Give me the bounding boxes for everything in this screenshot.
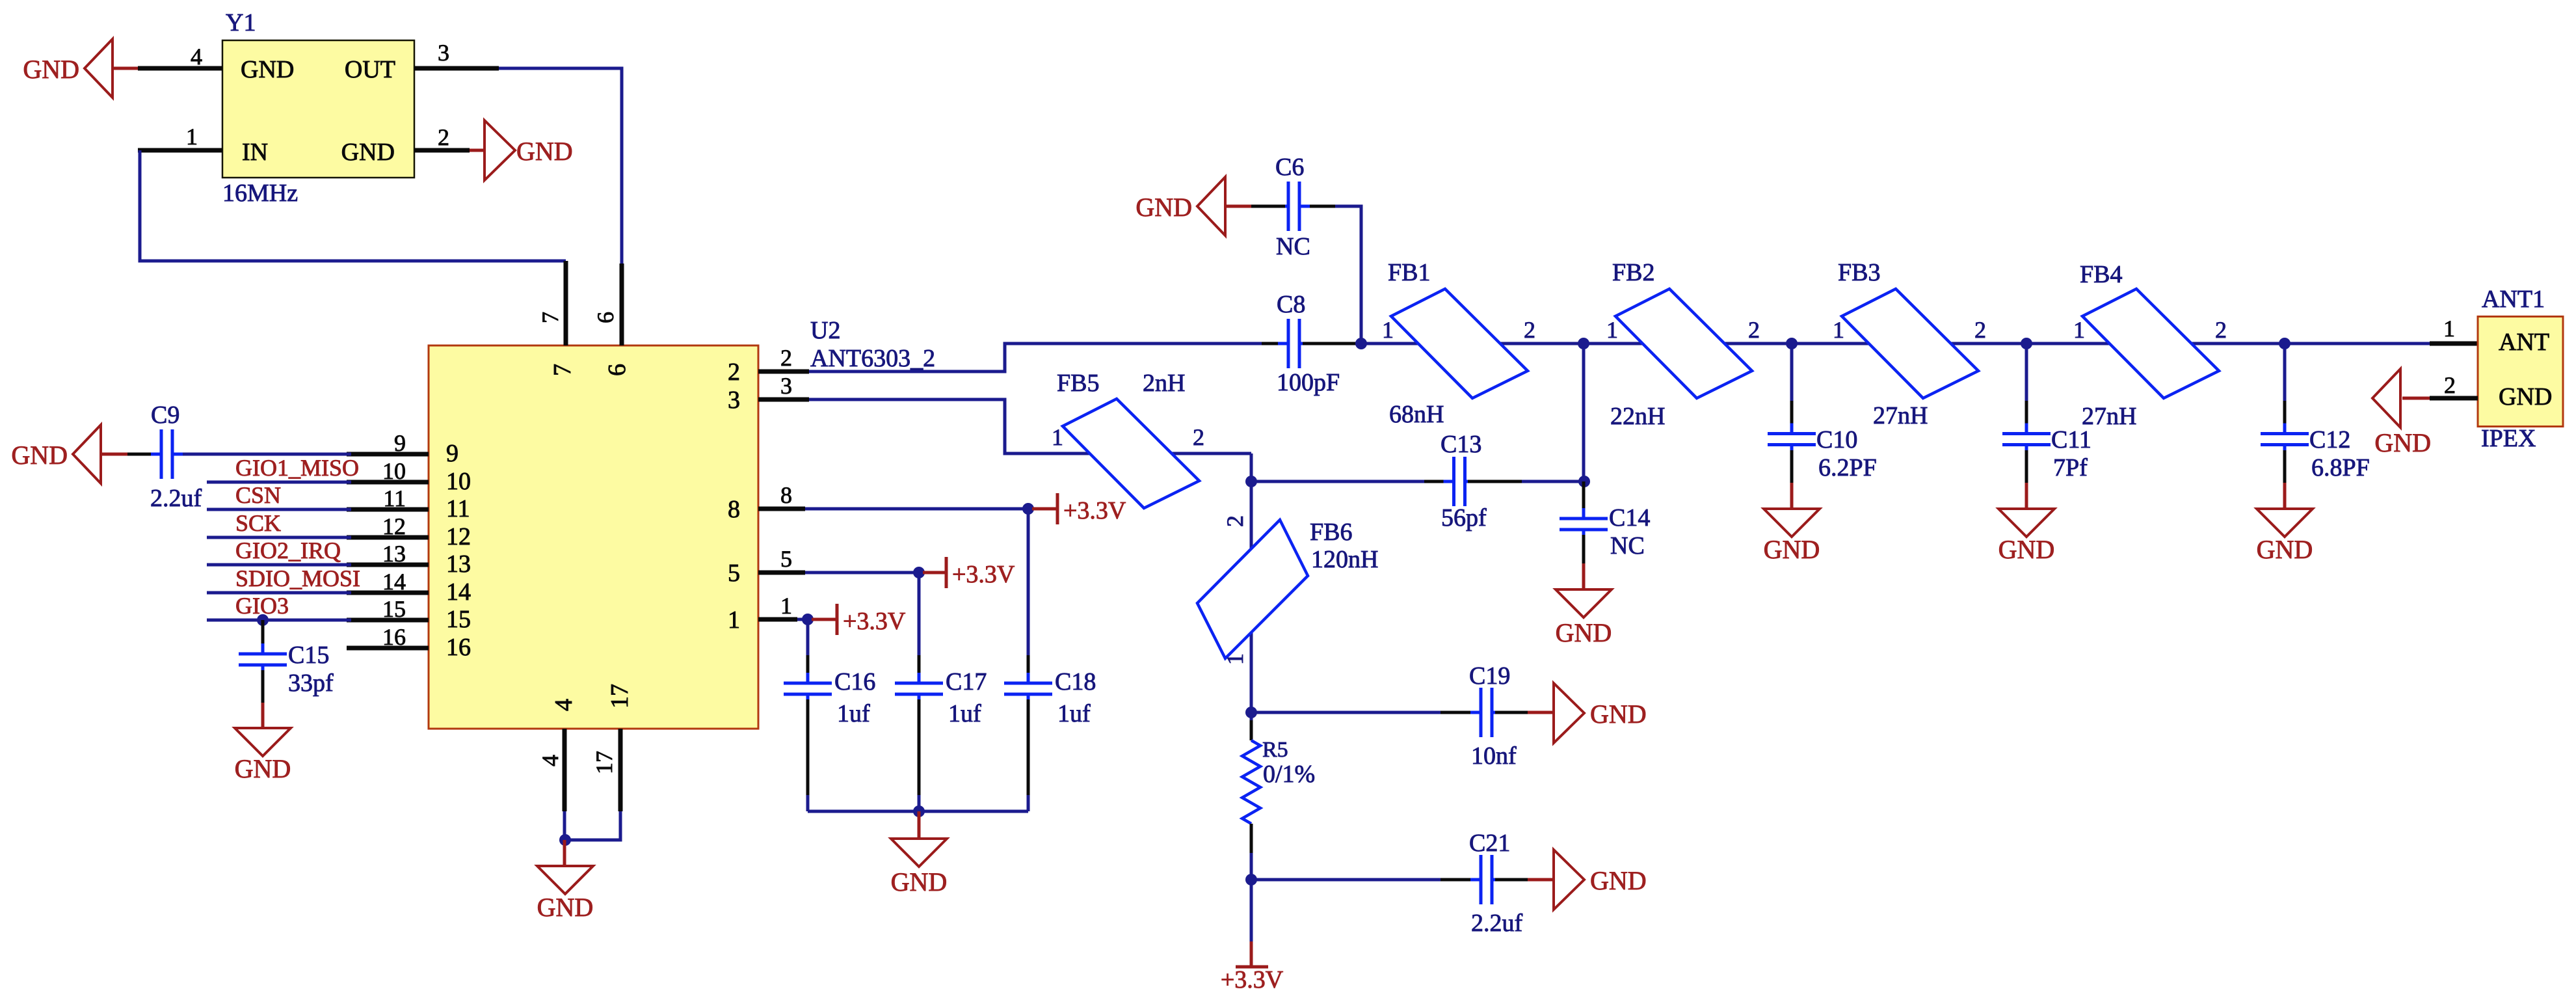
svg-text:2: 2 xyxy=(1193,424,1204,450)
svg-text:R5: R5 xyxy=(1262,738,1288,762)
svg-text:7: 7 xyxy=(549,364,576,376)
svg-text:SCK: SCK xyxy=(235,510,281,536)
wire Y1.IN to U2 pin7 xyxy=(140,150,566,261)
node D junction FB6/R5/C19 xyxy=(1245,707,1257,718)
svg-text:2: 2 xyxy=(780,345,792,371)
svg-text:1: 1 xyxy=(1222,653,1248,665)
svg-text:FB6: FB6 xyxy=(1310,519,1352,546)
ferrite bead FB2 xyxy=(1615,289,1752,398)
capacitor C18 xyxy=(1004,682,1052,685)
svg-text:1: 1 xyxy=(1833,317,1844,343)
svg-text:1: 1 xyxy=(2443,316,2455,342)
capacitor C17 xyxy=(895,682,943,685)
svg-text:GND: GND xyxy=(2374,428,2431,457)
capacitor C12 xyxy=(2261,432,2309,435)
svg-text:GND: GND xyxy=(1590,699,1647,729)
wire C8 to node A xyxy=(1303,342,1361,345)
wire C19 to ground xyxy=(1495,711,1528,714)
svg-text:U2: U2 xyxy=(810,317,840,344)
svg-text:GND: GND xyxy=(1135,193,1192,222)
svg-text:GIO2_IRQ: GIO2_IRQ xyxy=(235,537,341,563)
node junction pin5 xyxy=(913,567,925,578)
svg-text:GND: GND xyxy=(891,867,948,897)
svg-text:6.2PF: 6.2PF xyxy=(1818,454,1877,481)
svg-text:FB4: FB4 xyxy=(2080,261,2122,288)
svg-text:27nH: 27nH xyxy=(1873,402,1928,429)
node junction main line x=3116 xyxy=(2021,338,2032,349)
svg-text:10: 10 xyxy=(446,468,471,495)
svg-text:13: 13 xyxy=(382,541,406,567)
svg-text:16: 16 xyxy=(382,624,406,650)
U2 pin 12 stub xyxy=(347,535,429,540)
U2 pin 3 stub xyxy=(758,398,809,402)
wire C6 to ground xyxy=(1251,205,1285,208)
ferrite bead FB1 xyxy=(1391,289,1528,398)
ground GND below U2 xyxy=(537,866,593,894)
svg-text:5: 5 xyxy=(728,560,740,587)
svg-text:GND: GND xyxy=(1998,535,2055,564)
svg-text:2nH: 2nH xyxy=(1143,370,1185,397)
wire pin5 node down to C17 xyxy=(918,573,921,655)
svg-text:GND: GND xyxy=(235,754,291,783)
svg-text:2: 2 xyxy=(2215,317,2227,343)
svg-text:100pF: 100pF xyxy=(1277,369,1340,396)
svg-text:C14: C14 xyxy=(1609,504,1650,532)
svg-text:1uf: 1uf xyxy=(948,700,981,727)
wire down to C11 xyxy=(2025,344,2028,401)
node junction main line x=2435 xyxy=(1578,338,1589,349)
svg-text:15: 15 xyxy=(382,596,406,622)
svg-text:1uf: 1uf xyxy=(1057,700,1091,727)
ground GND at C9 xyxy=(100,453,127,456)
crystal Y1 xyxy=(222,40,414,178)
wire node A up to C6 xyxy=(1335,206,1361,344)
svg-text:3: 3 xyxy=(780,373,792,399)
svg-text:+3.3V: +3.3V xyxy=(843,608,906,635)
svg-text:10: 10 xyxy=(382,458,406,484)
wire C18 down xyxy=(1027,699,1030,795)
wire net GIO2_IRQ xyxy=(207,563,351,567)
svg-text:14: 14 xyxy=(446,578,471,606)
svg-text:GND: GND xyxy=(341,139,395,166)
svg-text:17: 17 xyxy=(591,751,617,774)
svg-text:7Pf: 7Pf xyxy=(2053,454,2088,481)
wire down to C10 xyxy=(1790,344,1794,401)
ground GND at Y1 pin 4 xyxy=(112,67,138,70)
node junction ground bus xyxy=(913,805,925,817)
wire U2 pin1 to +3.3V xyxy=(797,618,808,621)
svg-text:120nH: 120nH xyxy=(1311,546,1378,573)
svg-text:15: 15 xyxy=(446,606,471,633)
wire node C up to main line xyxy=(1582,344,1586,481)
svg-text:16: 16 xyxy=(446,634,471,661)
svg-text:1: 1 xyxy=(780,593,792,619)
svg-text:5: 5 xyxy=(780,546,792,572)
svg-text:2: 2 xyxy=(1748,317,1760,343)
svg-text:1: 1 xyxy=(728,606,740,634)
node junction main line x=3513 xyxy=(2279,338,2291,349)
U2 pin 15 stub xyxy=(347,618,429,623)
ground GND below C12 xyxy=(2257,509,2313,537)
ANT1 pin 2 stub xyxy=(2430,396,2478,401)
capacitor C8 xyxy=(1287,319,1290,368)
svg-text:C15: C15 xyxy=(288,642,329,669)
wire FB5 to node B xyxy=(1250,453,1253,481)
capacitor C21 xyxy=(1480,855,1483,904)
connector ANT1 body xyxy=(2478,317,2563,427)
svg-text:3: 3 xyxy=(728,386,740,414)
svg-text:C8: C8 xyxy=(1277,291,1305,318)
svg-text:4: 4 xyxy=(537,755,563,766)
svg-text:Y1: Y1 xyxy=(226,9,256,36)
wire net CSN xyxy=(207,508,351,511)
svg-text:C10: C10 xyxy=(1816,426,1857,453)
power +3.3V at pin1 xyxy=(812,618,837,621)
wire node E to C21 xyxy=(1251,878,1441,882)
svg-text:GND: GND xyxy=(23,55,79,84)
wire bus to ground xyxy=(918,811,921,839)
svg-text:8: 8 xyxy=(728,496,740,523)
svg-text:FB5: FB5 xyxy=(1057,370,1099,397)
Y1 pin 4 stub xyxy=(138,66,222,71)
power +3.3V bottom xyxy=(1236,966,1268,969)
svg-text:IPEX: IPEX xyxy=(2481,425,2536,452)
ground GND at ANT1 xyxy=(2402,397,2430,400)
wire Y1.OUT to U2 pin6 xyxy=(499,68,622,264)
svg-text:C11: C11 xyxy=(2051,426,2091,453)
svg-text:+3.3V: +3.3V xyxy=(952,561,1015,588)
wire down to C12 xyxy=(2283,344,2287,401)
U2 pin 10 stub xyxy=(347,480,429,485)
svg-text:CSN: CSN xyxy=(235,482,281,508)
svg-text:2: 2 xyxy=(1524,317,1535,343)
svg-text:C16: C16 xyxy=(834,668,875,696)
svg-text:GND: GND xyxy=(1556,618,1612,647)
svg-text:C12: C12 xyxy=(2309,426,2350,453)
node junction main line x=2755 xyxy=(1786,338,1798,349)
ferrite bead FB6 xyxy=(1197,520,1308,658)
IC U2 body xyxy=(429,345,758,729)
capacitor C9 xyxy=(127,453,159,456)
wire ground bus C16-C18 xyxy=(808,810,1028,813)
wire net GIO1_MISO xyxy=(207,481,351,484)
svg-text:IN: IN xyxy=(242,139,268,166)
wire U2 pin17 down xyxy=(564,811,620,840)
svg-text:SDIO_MOSI: SDIO_MOSI xyxy=(235,565,360,591)
U2 pin 13 stub xyxy=(347,563,429,567)
wire node B through FB6 xyxy=(1250,481,1253,712)
svg-text:33pf: 33pf xyxy=(288,669,334,697)
ground GND at C19 xyxy=(1554,683,1584,743)
svg-text:10nf: 10nf xyxy=(1471,742,1517,770)
svg-text:GND: GND xyxy=(2499,383,2552,411)
svg-text:9: 9 xyxy=(394,430,406,456)
wire main RF line xyxy=(1361,342,2430,345)
svg-text:+3.3V: +3.3V xyxy=(1221,966,1284,993)
svg-text:GND: GND xyxy=(1764,535,1820,564)
svg-text:GND: GND xyxy=(516,137,573,166)
svg-text:ANT1: ANT1 xyxy=(2482,286,2545,313)
capacitor C10 xyxy=(1768,432,1816,435)
svg-text:16MHz: 16MHz xyxy=(222,180,298,207)
wire net SCK xyxy=(207,536,351,539)
ground GND below C11 xyxy=(1998,509,2054,537)
svg-text:ANT: ANT xyxy=(2499,329,2549,356)
svg-text:OUT: OUT xyxy=(345,56,395,83)
ground GND at Y1 pin 2 xyxy=(470,149,485,152)
svg-text:+3.3V: +3.3V xyxy=(1063,497,1126,524)
resistor R5 xyxy=(1250,720,1253,740)
svg-text:2: 2 xyxy=(2444,372,2456,398)
svg-text:FB3: FB3 xyxy=(1838,259,1880,286)
svg-text:22nH: 22nH xyxy=(1610,403,1665,430)
svg-text:C9: C9 xyxy=(151,401,179,429)
wire net GIO3 xyxy=(207,619,351,622)
U2 pin 16 stub xyxy=(347,646,429,651)
svg-text:GND: GND xyxy=(537,893,594,922)
svg-text:7: 7 xyxy=(537,312,563,323)
svg-text:56pf: 56pf xyxy=(1441,504,1487,532)
node junction pin8 xyxy=(1022,503,1034,515)
svg-text:12: 12 xyxy=(446,523,471,550)
ferrite bead FB5 xyxy=(1063,399,1199,508)
svg-text:C21: C21 xyxy=(1469,830,1510,857)
ground GND at C21 xyxy=(1554,850,1584,910)
svg-text:17: 17 xyxy=(606,684,633,709)
U2 pin 9 stub xyxy=(347,452,429,457)
svg-text:1: 1 xyxy=(1382,317,1394,343)
node junction pin1 xyxy=(802,614,814,625)
node C junction C13/C14 xyxy=(1578,476,1590,487)
svg-text:11: 11 xyxy=(383,485,406,511)
capacitor C11 xyxy=(2002,432,2051,435)
wire to ground U2 xyxy=(563,840,566,866)
node B junction FB5/FB6/C13 xyxy=(1245,476,1257,487)
svg-text:6.8PF: 6.8PF xyxy=(2311,454,2370,481)
svg-text:NC: NC xyxy=(1276,233,1310,260)
U2 pin 17 stub xyxy=(618,729,623,811)
wire C14 to ground xyxy=(1582,535,1586,563)
svg-text:6: 6 xyxy=(592,312,618,323)
svg-text:4: 4 xyxy=(550,699,578,711)
wire U2 pin4 down xyxy=(563,811,566,840)
wire C11 to ground xyxy=(2025,450,2028,483)
svg-text:GND: GND xyxy=(2257,535,2313,564)
wire node E to +3.3V xyxy=(1250,880,1253,941)
U2 pin 4 stub xyxy=(563,729,567,811)
ground GND at C6 xyxy=(1197,177,1225,236)
wire C16 down xyxy=(806,699,810,795)
power +3.3V at pin8 xyxy=(1032,507,1057,511)
svg-text:12: 12 xyxy=(382,513,406,539)
wire U2 pin3 to FB5 xyxy=(809,399,1251,453)
wire U2 pin2 to C8 xyxy=(809,344,1262,372)
svg-text:C13: C13 xyxy=(1441,431,1481,458)
svg-text:GND: GND xyxy=(1590,866,1647,895)
svg-text:GIO1_MISO: GIO1_MISO xyxy=(235,455,359,481)
U2 pin 2 stub xyxy=(758,370,809,374)
wire pin1 node down to C16 xyxy=(806,619,810,655)
wire C9 to U2 pin9 xyxy=(183,453,351,456)
wire C12 to ground xyxy=(2283,450,2287,483)
svg-text:8: 8 xyxy=(780,482,792,508)
U2 pin 6 stub xyxy=(620,264,624,345)
svg-text:ANT6303_2: ANT6303_2 xyxy=(810,345,935,372)
node junction pins 4/17 xyxy=(559,834,571,846)
ground GND below C15 xyxy=(235,728,291,756)
capacitor C16 xyxy=(784,682,832,685)
ferrite bead FB3 xyxy=(1842,289,1978,398)
U2 pin 11 stub xyxy=(347,507,429,512)
svg-text:FB1: FB1 xyxy=(1388,259,1430,286)
svg-text:2.2uf: 2.2uf xyxy=(150,485,202,512)
U2 pin 5 stub xyxy=(758,571,805,575)
svg-text:1: 1 xyxy=(2073,317,2085,343)
wire C17 down xyxy=(918,699,921,795)
wire U2 pin8 to +3.3V xyxy=(805,507,1028,511)
power +3.3V at pin5 xyxy=(923,571,946,574)
capacitor C6 xyxy=(1287,182,1290,231)
U2 pin 14 stub xyxy=(347,591,429,595)
ground GND below C14 xyxy=(1556,589,1612,617)
Y1 pin 1 stub xyxy=(138,148,222,153)
U2 pin 8 stub xyxy=(758,507,805,511)
wire C21 to ground xyxy=(1495,878,1528,882)
capacitor C15 xyxy=(261,620,265,647)
svg-text:GND: GND xyxy=(11,440,68,470)
svg-text:4: 4 xyxy=(191,44,202,70)
wire node B to C13 xyxy=(1251,480,1424,483)
svg-text:1: 1 xyxy=(186,124,198,150)
svg-text:1uf: 1uf xyxy=(837,700,870,727)
svg-text:0/1%: 0/1% xyxy=(1263,761,1315,788)
svg-text:13: 13 xyxy=(446,550,471,578)
svg-text:1: 1 xyxy=(1606,317,1618,343)
svg-text:FB2: FB2 xyxy=(1612,259,1654,286)
wire main line to ANT1 xyxy=(2430,342,2478,346)
svg-text:9: 9 xyxy=(446,440,458,467)
svg-text:C6: C6 xyxy=(1275,154,1304,181)
svg-text:2: 2 xyxy=(728,358,740,386)
svg-text:GND: GND xyxy=(241,56,294,83)
ground GND below C10 xyxy=(1764,509,1820,537)
capacitor C13 xyxy=(1452,457,1455,506)
ground GND below bus xyxy=(891,839,947,867)
svg-text:1: 1 xyxy=(1052,424,1063,450)
Y1 pin 2 stub xyxy=(414,148,470,153)
wire C15 to ground xyxy=(261,670,265,703)
Y1 pin 3 stub xyxy=(414,66,499,71)
svg-text:6: 6 xyxy=(604,364,631,376)
svg-text:11: 11 xyxy=(446,495,470,522)
node A junction C8/C6/FB1 xyxy=(1355,338,1367,349)
svg-text:2: 2 xyxy=(438,124,449,150)
svg-text:68nH: 68nH xyxy=(1389,401,1444,428)
svg-text:3: 3 xyxy=(438,40,449,66)
capacitor C19 xyxy=(1480,688,1483,737)
svg-text:2.2uf: 2.2uf xyxy=(1471,910,1523,937)
wire U2 pin5 to +3.3V xyxy=(805,571,919,574)
wire pin8 node down to C18 xyxy=(1027,509,1030,655)
svg-text:14: 14 xyxy=(382,569,406,595)
svg-text:C19: C19 xyxy=(1469,662,1510,690)
capacitor C14 xyxy=(1582,481,1586,515)
svg-text:NC: NC xyxy=(1610,532,1645,560)
wire C13 to node C xyxy=(1468,480,1522,483)
svg-text:2: 2 xyxy=(1222,515,1248,527)
wire C10 to ground xyxy=(1790,450,1794,483)
U2 pin 1 stub xyxy=(758,617,797,622)
wire node D to C19 xyxy=(1251,711,1441,714)
ferrite bead FB4 xyxy=(2082,289,2219,398)
U2 pin 7 stub xyxy=(564,261,568,345)
node junction pin15/C15 xyxy=(257,614,269,626)
svg-text:2: 2 xyxy=(1974,317,1986,343)
node E junction R5/C21 xyxy=(1245,874,1257,885)
svg-text:C17: C17 xyxy=(946,668,987,696)
wire net SDIO_MOSI xyxy=(207,591,351,595)
svg-text:C18: C18 xyxy=(1055,668,1096,696)
